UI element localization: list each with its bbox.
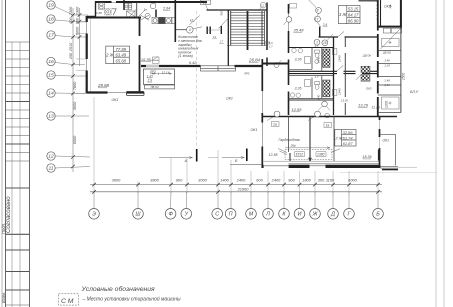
- small shaft checker right 1: [361, 66, 370, 73]
- stairwell middle stringer: [247, 11, 249, 50]
- svg-text:3%: 3%: [291, 144, 297, 148]
- svg-text:17: 17: [48, 33, 54, 39]
- sink circle hall: [145, 13, 150, 18]
- svg-text:2.6: 2.6: [322, 23, 328, 27]
- svg-text:(1 этаж): (1 этаж): [178, 54, 193, 58]
- circle fixture strip room: [274, 63, 279, 68]
- windows in right wall: [376, 31, 380, 35]
- left dim ticks: [71, 13, 81, 168]
- dim texts: [112, 178, 358, 192]
- door gap in right wall: [378, 120, 381, 129]
- lintel line between bars: [207, 29, 221, 31]
- svg-text:3000: 3000: [198, 178, 207, 183]
- stamp column right line: [29, 0, 31, 307]
- svg-text:Э: Э: [92, 212, 96, 218]
- shaft checker 2: [323, 80, 330, 97]
- window gap in right wall: [378, 137, 381, 148]
- up arrow glyph: [390, 5, 392, 9]
- wall x124: [123, 0, 125, 10]
- svg-text:16.55: 16.55: [141, 57, 152, 62]
- svg-text:2.48: 2.48: [384, 79, 391, 83]
- stairwell right stringer: [261, 11, 263, 46]
- svg-text:3.26: 3.26: [295, 87, 302, 91]
- porch lower box: [145, 85, 175, 89]
- lower wing top wall: [262, 116, 398, 118]
- corridor bottom wall left part: [141, 65, 201, 67]
- svg-text:ДВ.ОБ: ДВ.ОБ: [382, 52, 391, 55]
- bath fixtures right of kitchen: [125, 3, 132, 9]
- svg-text:ОК1: ОК1: [384, 5, 391, 9]
- window in left wall lower: [260, 123, 264, 147]
- svg-text:ДВ.ОН: ДВ.ОН: [362, 54, 371, 58]
- slope arrow: [285, 147, 330, 149]
- svg-text:84.17: 84.17: [348, 13, 359, 18]
- leader stubs to letter circles: [94, 192, 378, 209]
- door gaps in center left wall: [287, 53, 290, 60]
- bathroom cluster 1 right wall: [333, 37, 335, 74]
- svg-text:С М: С М: [61, 298, 74, 305]
- svg-text:61.74: 61.74: [343, 135, 354, 140]
- svg-text:6000: 6000: [348, 178, 357, 183]
- door leaf rect near wall: [290, 4, 297, 9]
- top exterior wall upper-left: [95, 1, 207, 3]
- stair top wall: [207, 9, 268, 11]
- svg-text:1940: 1940: [317, 94, 321, 101]
- svg-text:61.87: 61.87: [343, 141, 354, 146]
- svg-text:1.7: 1.7: [269, 45, 273, 49]
- small circle on wall: [325, 113, 330, 118]
- wall x139.5 vertical: [139, 18, 141, 93]
- svg-text:8.84: 8.84: [265, 41, 271, 45]
- svg-text:2.9: 2.9: [147, 79, 153, 83]
- bottom-right balcony outline: [381, 135, 396, 166]
- svg-text:3800: 3800: [150, 178, 159, 183]
- stamp inner vertical 2: [19, 42, 21, 307]
- svg-text:65.68: 65.68: [116, 58, 127, 63]
- kitchen partition wall: [136, 3, 138, 18]
- svg-text:ОК1: ОК1: [383, 139, 390, 143]
- stair bottom landing line: [227, 45, 267, 47]
- svg-text:Ж: Ж: [312, 212, 319, 218]
- svg-text:600: 600: [69, 16, 73, 23]
- svg-text:7860: 7860: [73, 81, 77, 90]
- texts 1.8 1.7 right of stair: [269, 41, 273, 49]
- svg-text:900: 900: [176, 178, 183, 183]
- window in center left wall: [287, 14, 291, 32]
- svg-text:– Место установки стиральной м: – Место установки стиральной машины: [82, 296, 181, 303]
- svg-text:14: 14: [48, 91, 54, 97]
- table top-right (3Ж): [339, 6, 361, 24]
- svg-text:900: 900: [220, 10, 224, 15]
- letter circles bottom: [89, 209, 384, 220]
- left axis circles: [47, 1, 55, 172]
- svg-text:Б: Б: [376, 212, 380, 218]
- svg-text:77.89: 77.89: [116, 47, 127, 52]
- axis 20 box flag: [201, 0, 211, 5]
- legend dashed box СМ: [59, 294, 79, 305]
- stove symbol: [98, 3, 104, 10]
- svg-text:600: 600: [256, 178, 263, 183]
- center left wall: [288, 4, 290, 115]
- svg-text:2300: 2300: [76, 6, 80, 16]
- wall stub y29.7: [176, 29, 187, 31]
- svg-text:6000: 6000: [76, 26, 80, 35]
- svg-text:6.42: 6.42: [189, 61, 197, 65]
- window 2 in left wall lower: [260, 91, 264, 113]
- tiny stacked boxes: [153, 57, 160, 60]
- svg-text:БЛ.У: БЛ.У: [410, 90, 419, 94]
- electrical panel box: [127, 11, 136, 17]
- svg-text:17: 17: [315, 17, 319, 21]
- circle 11 flag at stair top: [260, 2, 266, 8]
- svg-text:8: 8: [317, 9, 319, 13]
- dashed section line A: [196, 11, 198, 148]
- svg-text:ОК1: ОК1: [226, 97, 233, 101]
- window in left wall: [85, 22, 89, 34]
- 1512 boxed: [295, 152, 305, 157]
- washing machine symbol dashed СМ: [104, 9, 111, 15]
- porch slab left: [127, 92, 145, 96]
- svg-text:19: 19: [48, 3, 54, 9]
- bath counter fixtures: [152, 17, 175, 23]
- bathroom cluster 2 top wall: [289, 75, 334, 77]
- window unit row below loggia: [383, 28, 401, 33]
- svg-text:1940: 1940: [338, 55, 342, 62]
- svg-text:960: 960: [288, 178, 295, 183]
- lower wing bottom wall intermediate line: [289, 163, 380, 165]
- svg-text:1400: 1400: [220, 178, 229, 183]
- left dim chain lines: [72, 8, 74, 172]
- svg-text:ЛВ.О2: ЛВ.О2: [150, 85, 160, 89]
- svg-text:1500: 1500: [401, 73, 405, 80]
- left wall inner line: [90, 17, 92, 92]
- svg-text:13.28: 13.28: [341, 99, 348, 103]
- svg-text:6000: 6000: [73, 135, 77, 144]
- svg-text:2.19: 2.19: [384, 83, 391, 87]
- curtain wing right: [331, 149, 340, 153]
- svg-text:П: П: [229, 212, 233, 218]
- wc fixtures 1: [292, 48, 320, 63]
- svg-text:2400: 2400: [271, 178, 281, 183]
- svg-text:1940: 1940: [338, 88, 342, 95]
- bathroom cluster 1 inner partitions: [312, 48, 322, 71]
- section mark Б left: [222, 157, 244, 159]
- small shaft checker right 2: [361, 75, 370, 82]
- svg-text:1160: 1160: [326, 178, 335, 183]
- top-right loggia: [378, 0, 402, 28]
- vestibule labels: [147, 70, 170, 83]
- shaft checker 1: [323, 49, 330, 67]
- svg-text:1512: 1512: [296, 153, 304, 157]
- door jamb bar 3: [220, 26, 222, 34]
- lower wing right exterior wall: [379, 117, 381, 169]
- svg-text:1380: 1380: [317, 153, 325, 157]
- svg-text:2 Ж: 2 Ж: [105, 52, 114, 57]
- svg-text:Ш: Ш: [136, 212, 141, 218]
- tiny boxes left of partition: [332, 48, 337, 54]
- svg-text:Гардеробная: Гардеробная: [279, 138, 300, 142]
- svg-text:Взам.: Взам.: [1, 292, 6, 303]
- circle A mark corridor: [187, 27, 194, 34]
- door jamb bar 2: [209, 27, 211, 35]
- bathroom cluster 2 right wall: [333, 74, 335, 116]
- svg-text:ЛР3: ЛР3: [243, 72, 250, 76]
- svg-text:900: 900: [76, 17, 80, 24]
- cluster 1 bottom line: [289, 68, 313, 70]
- svg-text:Подп.: Подп.: [1, 223, 6, 234]
- stairwell left stringer: [230, 11, 232, 46]
- leader diagonal top: [309, 0, 321, 27]
- circle flag corridor: [322, 101, 328, 107]
- left dim rotated numbers: [69, 6, 80, 144]
- kitchen band bottom wall: [87, 17, 142, 19]
- balcony dividers: [378, 51, 401, 113]
- svg-text:И: И: [298, 212, 302, 218]
- svg-text:1940: 1940: [317, 56, 321, 63]
- svg-text:М: М: [249, 212, 254, 218]
- svg-text:12: 12: [48, 154, 54, 160]
- terrace ledge right: [381, 166, 399, 168]
- door X swings left: [140, 15, 149, 20]
- svg-text:2.48: 2.48: [384, 59, 391, 63]
- lower wing bottom wall inner face: [262, 160, 379, 162]
- dim chain line 2: [90, 191, 382, 193]
- vestibule dim arrow: [152, 73, 172, 75]
- lower wing inner wall x333.5: [333, 117, 335, 162]
- window 2 in left wall: [85, 59, 89, 71]
- svg-text:16: 16: [48, 59, 54, 65]
- flag circle near 2.64: [150, 3, 156, 9]
- wall stub x319.7: [319, 27, 321, 37]
- svg-text:86.90: 86.90: [348, 19, 359, 24]
- section mark A bottom: [159, 157, 192, 159]
- svg-text:15: 15: [48, 73, 54, 79]
- ledge line left of lower wing: [230, 163, 262, 165]
- svg-text:ОК1: ОК1: [251, 128, 258, 132]
- svg-text:18: 18: [48, 17, 54, 23]
- svg-text:2510: 2510: [69, 42, 73, 52]
- svg-text:2400: 2400: [236, 178, 246, 183]
- window in bottom wall: [108, 90, 127, 94]
- stairwell right wall: [266, 3, 268, 67]
- svg-text:Согласовано: Согласовано: [6, 196, 12, 233]
- svg-text:3600: 3600: [73, 101, 77, 110]
- svg-text:32.86: 32.86: [343, 130, 354, 135]
- ticks chain 2: [92, 190, 380, 194]
- corridor bottom wall right part: [235, 65, 263, 67]
- svg-text:11.29: 11.29: [372, 106, 380, 110]
- axis circles small pair on wall y37: [314, 39, 320, 45]
- svg-text:17: 17: [190, 18, 194, 22]
- right exterior wall top: [377, 0, 379, 117]
- svg-text:12.16: 12.16: [162, 71, 170, 75]
- svg-text:1.7: 1.7: [315, 44, 319, 48]
- corridor wall x175: [174, 0, 176, 42]
- wall y100 center block: [289, 99, 335, 101]
- svg-text:2 Ж: 2 Ж: [335, 135, 343, 140]
- svg-text:21960: 21960: [237, 187, 250, 192]
- lower wing inner wall x288.5: [288, 117, 290, 153]
- svg-text:2.19: 2.19: [384, 64, 391, 68]
- axis circles small pair top: [316, 7, 322, 13]
- stairwell left wall: [227, 10, 229, 66]
- svg-text:Д: Д: [330, 212, 335, 218]
- svg-text:3600: 3600: [112, 178, 121, 183]
- corridor wall y63.5 right part: [262, 63, 289, 65]
- svg-text:28.88: 28.88: [97, 83, 110, 88]
- wall hatch strip: [376, 0, 378, 19]
- svg-text:Условные обозначения: Условные обозначения: [81, 285, 156, 293]
- svg-text:1а: 1а: [326, 124, 330, 128]
- inner partition right rooms bottom: [344, 74, 346, 116]
- svg-text:20: 20: [202, 1, 207, 5]
- svg-text:250: 250: [69, 52, 73, 60]
- apartment divider wall y73.5: [289, 71, 378, 73]
- dim chain line 1: [90, 184, 382, 186]
- svg-text:Ф: Ф: [168, 212, 173, 218]
- cluster 2 bottom line: [289, 98, 334, 100]
- corridor wall y37: [319, 36, 378, 38]
- porch landing entrance: [201, 66, 236, 71]
- svg-text:11: 11: [48, 166, 53, 172]
- kitchen window gap: [112, 1, 117, 4]
- wall stub right of kitchen: [155, 10, 157, 18]
- svg-text:1.7: 1.7: [315, 75, 319, 79]
- section mark Б right: [382, 169, 398, 171]
- door swing corridor top: [190, 15, 200, 24]
- svg-text:12.55: 12.55: [292, 107, 303, 112]
- door swing kitchen: [129, 10, 146, 18]
- svg-text:1.88: 1.88: [96, 11, 102, 15]
- svg-text:3 Ж: 3 Ж: [339, 12, 347, 17]
- top-left step wall: [87, 2, 96, 17]
- svg-text:11: 11: [261, 4, 264, 8]
- pier dark: [378, 150, 380, 161]
- stair treads: [231, 12, 265, 43]
- 1a box left: [272, 122, 280, 127]
- 2.48 2.19 labels: [384, 59, 391, 88]
- door swing 7: [112, 9, 116, 15]
- 1380 boxed: [316, 152, 326, 157]
- stamp inner vertical 1: [11, 42, 13, 307]
- door gap in x139.5: [138, 36, 141, 45]
- top wall right segment: [359, 0, 378, 2]
- lower wing left wall: [261, 59, 263, 168]
- svg-text:1800: 1800: [302, 178, 311, 183]
- svg-text:4: 4: [189, 28, 191, 32]
- svg-text:16: 16: [323, 41, 327, 45]
- ground faint line: [340, 172, 436, 174]
- small labels 13 17 boxes: [213, 35, 223, 44]
- window extension ties left wall: [76, 22, 87, 94]
- windows in bottom wall: [264, 165, 289, 169]
- svg-text:26.84: 26.84: [248, 58, 261, 63]
- svg-text:300: 300: [318, 178, 325, 183]
- vestibule box: [144, 69, 175, 85]
- ticks chain 1: [92, 183, 380, 187]
- svg-text:ОК3: ОК3: [366, 86, 372, 90]
- axis circles on top wall: [274, 111, 280, 117]
- window unit bottom balcony: [382, 97, 400, 109]
- svg-text:Л: Л: [265, 212, 270, 218]
- 1a box right: [324, 123, 332, 128]
- left axis leader lines: [55, 7, 90, 169]
- left room bottom wall: [87, 91, 145, 93]
- window jamb dark: [289, 153, 291, 161]
- svg-text:53.15: 53.15: [348, 7, 359, 12]
- stamp column left line: [5, 0, 7, 307]
- inner partition right rooms top: [344, 37, 346, 74]
- svg-text:3.26: 3.26: [295, 58, 302, 62]
- svg-text:63.49: 63.49: [116, 52, 127, 57]
- svg-text:У: У: [184, 212, 189, 218]
- slope arrow vertical x310: [309, 117, 311, 162]
- dashed zone: [285, 150, 332, 160]
- wc fixtures 2: [290, 80, 319, 98]
- svg-text:12.58: 12.58: [269, 153, 278, 157]
- bathroom cluster 1 top wall: [289, 47, 334, 49]
- svg-text:18.39: 18.39: [363, 155, 372, 159]
- curtain wing left: [278, 149, 287, 155]
- lower wing bottom wall outer band: [262, 165, 380, 168]
- door swing stair hall: [219, 18, 229, 29]
- bathroom cluster 2 inner partitions: [312, 76, 322, 99]
- door jamb bar 1: [206, 27, 208, 35]
- svg-text:2.64: 2.64: [162, 7, 170, 11]
- svg-text:5а: 5а: [144, 7, 148, 11]
- svg-text:35.48: 35.48: [294, 28, 305, 33]
- sheet border right lines: [435, 0, 437, 307]
- sheet border left outer: [1, 0, 3, 307]
- svg-text:ОК1: ОК1: [112, 98, 119, 102]
- left exterior wall: [86, 16, 88, 93]
- axis circle on left wall: [286, 17, 292, 23]
- svg-text:13: 13: [48, 114, 54, 120]
- extension lines: [94, 97, 378, 193]
- balcony outer edge: [400, 28, 402, 113]
- svg-text:2300: 2300: [69, 6, 73, 16]
- Колясочная text block: [177, 35, 201, 58]
- svg-text:С: С: [215, 212, 219, 218]
- table mid-right (2Ж lower): [335, 130, 356, 147]
- apartment table left (2Ж): [106, 46, 130, 64]
- svg-text:1а: 1а: [273, 123, 277, 127]
- balcony diagonal: [381, 29, 401, 50]
- stamp rows: [6, 42, 30, 305]
- svg-text:13.29: 13.29: [358, 103, 369, 108]
- window unit top balcony: [382, 39, 400, 47]
- svg-text:1200: 1200: [385, 101, 389, 108]
